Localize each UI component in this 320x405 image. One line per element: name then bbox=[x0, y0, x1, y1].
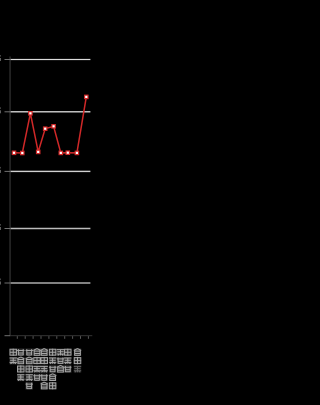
x tick 8 bbox=[72, 336, 73, 339]
x tick 4 bbox=[41, 336, 42, 339]
x label column 5 bbox=[41, 349, 48, 390]
y tick 3 bbox=[5, 171, 11, 172]
x label column 8 bbox=[64, 349, 71, 373]
gridline 3 bbox=[11, 171, 91, 172]
gridline 5 bbox=[11, 282, 91, 284]
x label column 1 bbox=[10, 349, 17, 365]
y tick label fragment 2 (cut off at image edge) bbox=[0, 107, 2, 109]
y tick 1 bbox=[5, 59, 11, 60]
y tick 2 bbox=[5, 111, 11, 112]
y tick 5 bbox=[5, 283, 11, 284]
factor profile line chart bbox=[0, 0, 100, 400]
x tick 2 bbox=[25, 336, 26, 339]
data marker 6 bbox=[51, 124, 56, 129]
x tick 6 bbox=[56, 336, 57, 339]
y tick label fragment 5 (cut off at image edge) bbox=[0, 279, 2, 281]
data marker 3 bbox=[28, 111, 33, 116]
data marker 2 bbox=[20, 151, 25, 156]
bottom-left y tick at axis level bbox=[5, 335, 11, 336]
data marker 7 bbox=[59, 151, 64, 156]
gridline 4 bbox=[11, 228, 91, 230]
x tick 7 bbox=[64, 336, 65, 339]
x tick 10 bbox=[88, 336, 89, 339]
data marker 8 bbox=[66, 150, 71, 155]
y tick 4 bbox=[5, 228, 11, 229]
x-axis spine bbox=[10, 335, 92, 336]
x label column 2 bbox=[17, 349, 24, 382]
x label column 9 bbox=[74, 349, 81, 373]
x label column 3 bbox=[26, 349, 33, 390]
gridline 2 bbox=[11, 111, 91, 112]
data polyline (red series) bbox=[14, 97, 86, 153]
x tick 9 bbox=[80, 336, 81, 339]
data marker 10 bbox=[84, 95, 89, 100]
x label column 7 bbox=[57, 349, 64, 373]
x tick 5 bbox=[48, 336, 49, 339]
x label column 6 bbox=[49, 349, 56, 390]
x label column 4 bbox=[33, 349, 40, 382]
y tick label fragment 3 (cut off at image edge) bbox=[0, 167, 2, 169]
x tick 1 bbox=[17, 336, 18, 339]
x tick 3 bbox=[33, 336, 34, 339]
y tick label fragment 1 (cut off at image edge) bbox=[0, 55, 2, 57]
y-axis spine bbox=[10, 57, 11, 337]
data marker 1 bbox=[12, 151, 17, 156]
gridline 1 bbox=[11, 59, 91, 60]
data marker 9 bbox=[75, 151, 80, 156]
data marker 4 bbox=[36, 150, 41, 155]
data marker 5 bbox=[43, 126, 48, 131]
y tick label fragment 4 (cut off at image edge) bbox=[0, 224, 2, 226]
